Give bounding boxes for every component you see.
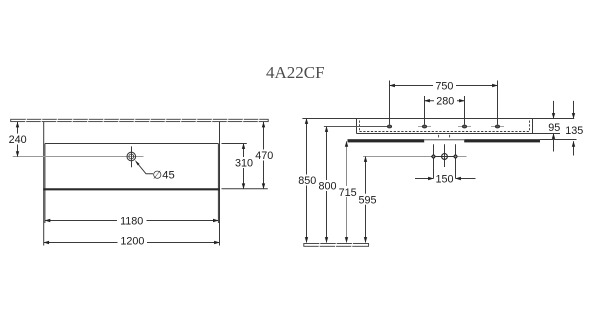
drain circle	[442, 154, 448, 160]
svg-text:∅45: ∅45	[153, 169, 175, 181]
floor line (segmented bar)	[304, 244, 369, 247]
dim 715 (grey line)	[346, 141, 348, 242]
basin front edge (thick)	[43, 188, 220, 190]
basin right end	[532, 119, 534, 134]
svg-text:240: 240	[9, 134, 27, 146]
bracket bottom thin line across gap	[424, 139, 464, 141]
dim 150	[415, 178, 434, 180]
leader line for diameter 45	[136, 162, 153, 174]
dim 95	[553, 101, 555, 119]
basin inner left edge + extension	[44, 144, 46, 224]
svg-text:715: 715	[339, 187, 357, 199]
centre line through drain (grey)	[13, 156, 144, 158]
dim 850	[306, 119, 308, 243]
wall line (segmented bar)	[11, 119, 269, 121]
wall bracket right (thick bar)	[464, 139, 540, 142]
basin bottom edge with extension	[357, 133, 561, 135]
bracket bottom extension	[540, 139, 577, 141]
svg-text:800: 800	[318, 181, 336, 193]
right drawing dimension texts	[297, 80, 584, 206]
supply hole right	[455, 144, 457, 178]
dim 800	[326, 127, 328, 243]
svg-text:95: 95	[548, 122, 560, 134]
svg-text:750: 750	[435, 80, 453, 92]
dim 470	[263, 122, 265, 189]
hole side ticks (grey)	[418, 126, 504, 128]
dim 280	[425, 100, 465, 102]
fixing hole 4	[495, 125, 499, 128]
basin outer left edge + extension	[43, 122, 45, 246]
fixing hole 1	[387, 125, 391, 128]
basin inner right edge + extension	[217, 144, 219, 224]
dim 310	[243, 144, 245, 189]
svg-text:150: 150	[435, 173, 453, 185]
fixing hole 2	[422, 125, 426, 128]
dim 135	[573, 101, 575, 119]
basin inner back edge	[45, 143, 219, 145]
basin top edge with extensions	[302, 118, 574, 120]
svg-text:4A22CF: 4A22CF	[266, 63, 325, 82]
basin left end	[356, 119, 358, 134]
dim 240	[17, 122, 19, 157]
svg-text:595: 595	[358, 194, 376, 206]
dim 750 extension lines	[389, 81, 391, 125]
svg-text:135: 135	[565, 125, 583, 137]
dim 750	[390, 85, 498, 87]
svg-text:1200: 1200	[120, 236, 144, 248]
left drawing dimension texts	[7, 134, 276, 248]
fixing hole 3	[462, 125, 466, 128]
svg-text:280: 280	[436, 96, 454, 108]
drain hole outer circle	[127, 152, 136, 161]
supply hole left	[433, 144, 435, 178]
svg-text:470: 470	[255, 150, 273, 162]
svg-text:1180: 1180	[120, 215, 143, 227]
basin outer right edge + extension	[219, 122, 221, 246]
dim 280 extension lines	[424, 96, 426, 125]
hidden drain edges (ticks)	[438, 135, 440, 138]
fixing hole centreline to 800 dim	[324, 126, 390, 128]
drain centre line (grey)	[363, 156, 467, 158]
dim 1180	[45, 220, 219, 222]
dim 1200	[44, 242, 220, 244]
drain hole inner circle	[129, 154, 134, 159]
drain vertical centre tick	[131, 146, 133, 167]
drain centre line dark part	[431, 156, 458, 158]
wall bracket left (thick bar)	[348, 139, 425, 142]
drain vertical centre line	[444, 144, 446, 167]
svg-text:310: 310	[235, 157, 253, 169]
wall bar segment gaps	[26, 119, 260, 123]
hidden inner contour (dashed)	[360, 121, 530, 132]
svg-text:850: 850	[298, 175, 316, 187]
dim 595	[365, 157, 367, 243]
